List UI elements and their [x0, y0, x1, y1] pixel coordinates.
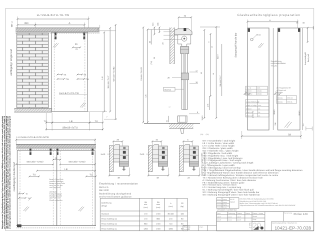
svg-text:flush pull: flush pull	[307, 54, 310, 62]
detail D2 wall fixing 2x10	[148, 146, 152, 172]
svg-text:(mm): (mm)	[156, 206, 161, 209]
svg-text:Standard: Standard	[101, 213, 109, 216]
view1 bottom sill band	[14, 108, 52, 112]
svg-text:17: 17	[196, 69, 198, 72]
svg-text:Ausführung: Ausführung	[101, 202, 111, 205]
view2 roller hangers	[30, 149, 32, 152]
svg-text:(34): (34)	[200, 133, 203, 136]
svg-text:SB=LB/2+TU-B/2: SB=LB/2+TU-B/2	[69, 160, 87, 163]
section side clamp	[181, 73, 188, 80]
view1 dim 7 bottom right	[88, 111, 107, 113]
handle chain top line	[200, 26, 220, 28]
svg-text:LB: LB	[65, 168, 68, 171]
svg-text:26: 26	[258, 111, 260, 114]
notice left mini table	[217, 197, 230, 199]
section dim 8 bottom	[189, 113, 200, 115]
view2 dim TU left	[30, 175, 40, 177]
svg-text:7: 7	[106, 115, 107, 118]
svg-text:80-160: 80-160	[168, 213, 174, 216]
section wall hatch strip	[170, 28, 174, 65]
svg-text:xx.xx: xx.xx	[217, 205, 221, 207]
svg-text:60: 60	[200, 72, 203, 74]
svg-text:30: 30	[153, 57, 156, 59]
glass prep dim 59 below panes	[241, 131, 243, 139]
title block middle fields	[251, 212, 253, 231]
svg-text:45: 45	[296, 22, 298, 25]
svg-text:Glasbearbeitung/glass prepara: Glasbearbeitung/glass preparation	[237, 13, 300, 17]
section floor hatch	[169, 123, 193, 128]
svg-text:min: min	[144, 203, 147, 206]
svg-text:TU: TU	[44, 120, 47, 123]
svg-text:Stangengriff/handle bar: Stangengriff/handle bar	[234, 32, 237, 57]
svg-text:LH: LH	[101, 76, 104, 79]
section floor guide	[178, 116, 187, 122]
glass prep right dim 904	[302, 28, 304, 130]
svg-text:1250: 1250	[144, 227, 148, 230]
title block logo	[253, 226, 258, 230]
svg-text:Perlan SoftStop 44: Perlan SoftStop 44	[101, 218, 117, 221]
view2 glass marks	[24, 207, 28, 212]
section door panel	[181, 54, 183, 110]
view2 right leaf	[57, 151, 95, 226]
svg-text:10421: 10421	[188, 225, 191, 230]
svg-text:TU: TU	[89, 174, 92, 177]
view2 dim LB	[37, 170, 95, 172]
section dim LH vertical	[147, 30, 149, 123]
svg-text:1700: 1700	[156, 227, 160, 230]
glass prep glass marks	[258, 43, 262, 48]
svg-text:26: 26	[258, 108, 260, 111]
view1 dimension 350	[18, 24, 36, 26]
svg-text:ESG 10: ESG 10	[246, 93, 252, 96]
view1 bottom dim SB	[46, 128, 103, 130]
svg-text:Perlan 140: Perlan 140	[294, 212, 308, 216]
section soffit line	[148, 29, 170, 31]
svg-text:(TU): (TU)	[150, 61, 153, 65]
svg-text:und ragt nach: und ragt nach	[49, 186, 61, 189]
svg-text:maße of edge: maße of edge	[246, 104, 256, 107]
view1 roller hangers	[55, 33, 57, 36]
handle chain fourth line	[221, 44, 223, 96]
glass prep hole d15	[251, 38, 254, 41]
svg-text:SB=LB+2xTU: SB=LB+2xTU	[62, 127, 77, 130]
view1 dims TK TW right pair	[78, 74, 83, 76]
svg-text:Ausschnittgriff: Ausschnittgriff	[304, 52, 307, 65]
svg-text:Grösse: Grösse	[277, 97, 283, 100]
svg-text:104.3: 104.3	[201, 116, 204, 121]
svg-text:(27): (27)	[207, 103, 210, 107]
svg-text:80: 80	[181, 223, 183, 226]
view1 dims TK TW left pair	[58, 74, 63, 76]
svg-text:SH=LH-TU-7: SH=LH-TU-7	[107, 75, 110, 88]
handle chain second line	[210, 34, 212, 96]
detail D1 wall fixing 5x10	[109, 146, 113, 172]
svg-text:SG = Bohrung Stangengriff unte: SG = Bohrung Stangengriff unten / bore h…	[203, 194, 261, 197]
svg-text:26: 26	[258, 115, 260, 118]
title block left cells	[183, 224, 217, 226]
handle chain third line	[215, 27, 217, 118]
svg-text:DIN 4L: DIN 4L	[287, 101, 292, 104]
title block revision rows	[217, 214, 265, 216]
section floor anchor	[181, 129, 185, 134]
title block benennung Perlan 140	[283, 212, 285, 222]
glass prep right bottom ticks	[305, 127, 307, 131]
svg-text:LL=2xLB+2xTU-B-2xTK-2xTW: LL=2xLB+2xTU-B-2xTK-2xTW	[16, 136, 49, 139]
svg-text:xx.xx: xx.xx	[228, 220, 232, 222]
view2 corner floor guide dark	[17, 224, 21, 227]
svg-text:10421-EP-70.028: 10421-EP-70.028	[275, 225, 312, 230]
svg-text:160: 160	[181, 213, 184, 216]
svg-text:SB=LB/2+TU-B/2: SB=LB/2+TU-B/2	[27, 160, 45, 163]
svg-text:Datum: Datum	[230, 200, 236, 203]
handle chain datum line	[203, 30, 205, 118]
svg-text:GH=LH-TU+82: GH=LH-TU+82	[140, 66, 143, 80]
svg-text:TU: TU	[95, 120, 98, 123]
svg-text:Gleich anliefern: Gleich anliefern	[49, 199, 62, 202]
glass prep table 1	[246, 85, 268, 87]
svg-text:520: 520	[249, 221, 262, 230]
svg-text:Anfrage: Anfrage	[277, 91, 283, 94]
svg-text:32: 32	[165, 120, 168, 122]
svg-text:xx.xx: xx.xx	[217, 202, 221, 204]
svg-text:DIN 44: DIN 44	[287, 97, 292, 100]
view1 door leaf	[52, 32, 88, 111]
svg-text:TS=25: TS=25	[271, 65, 278, 68]
glass prep table 2	[246, 99, 270, 101]
view2 top track band	[16, 144, 96, 148]
svg-text:(mm): (mm)	[169, 205, 174, 208]
view2 bottom sill	[16, 225, 96, 227]
svg-text:ESG 12: ESG 12	[246, 115, 252, 118]
svg-text:ESG 8: ESG 8	[246, 108, 251, 111]
view1 right vertical dim LH	[103, 32, 105, 111]
copyright note rotated left edge	[1, 115, 11, 229]
svg-text:1700: 1700	[156, 213, 160, 216]
svg-text:einflügelig / single leaf: einflügelig / single leaf	[10, 49, 13, 76]
svg-text:xx.xx: xx.xx	[228, 216, 232, 218]
glass prep right pane	[278, 28, 300, 130]
view1 right vertical dim GH	[115, 25, 117, 119]
section dim 18	[190, 83, 199, 85]
glass prep right pane glass marks	[285, 122, 290, 128]
svg-text:860: 860	[144, 223, 147, 226]
svg-text:vertraulich / confidential: vertraulich / confidential	[217, 209, 237, 212]
svg-text:28: 28	[168, 76, 170, 79]
svg-text:Perlan SoftStop 44: Perlan SoftStop 44	[101, 223, 117, 226]
view2 top dim line	[16, 139, 95, 141]
svg-text:zweiflügelig / double leaf: zweiflügelig / double leaf	[13, 162, 16, 192]
svg-text:1700: 1700	[156, 223, 160, 226]
svg-text:40: 40	[148, 41, 151, 43]
detail D3 wall fixing	[179, 146, 183, 172]
view1 bottom dim TU LB TU	[46, 122, 52, 124]
svg-text:904.3: 904.3	[298, 111, 301, 116]
svg-text:26/40: 26/40	[257, 93, 261, 96]
glass prep TK dim left	[245, 93, 250, 95]
view1 dimension A	[35, 24, 84, 26]
svg-text:26/40: 26/40	[257, 90, 261, 93]
svg-text:18: 18	[196, 81, 198, 84]
svg-text:(52): (52)	[152, 22, 155, 26]
view2 dim B	[53, 159, 60, 161]
svg-text:design: design	[101, 204, 107, 207]
view1 bottom extension lines	[45, 113, 47, 131]
svg-text:(34): (34)	[157, 22, 160, 26]
glass prep TK dim right	[275, 93, 280, 95]
svg-text:GH=LH-TU+82: GH=LH-TU+82	[113, 66, 116, 81]
view1 right vertical dim SH	[109, 28, 111, 112]
svg-text:Grösse: Grösse	[277, 101, 283, 104]
svg-text:740: 740	[169, 223, 172, 226]
svg-text:29: 29	[161, 43, 164, 45]
svg-text:170: 170	[144, 213, 147, 216]
glass prep centre dim 904	[272, 28, 274, 130]
view1 top track band	[16, 28, 100, 32]
svg-text:470: 470	[169, 218, 172, 221]
svg-text:TU: TU	[33, 174, 36, 177]
glass prep left pane	[248, 28, 270, 130]
table design SB A FG	[99, 198, 101, 231]
view2 TK TW dims	[19, 193, 24, 195]
svg-text:12: 12	[211, 46, 214, 48]
svg-text:80: 80	[181, 218, 183, 221]
svg-text:LL=2xLB-3xTU-TK-TW: LL=2xLB-3xTU-TK-TW	[37, 13, 70, 17]
svg-text:1090: 1090	[169, 227, 173, 230]
svg-text:350: 350	[24, 22, 29, 25]
view1 leaf glass marks top	[53, 43, 57, 47]
svg-text:Ausschnittsmass: Ausschnittsmass	[246, 101, 259, 104]
title block outer lines	[217, 211, 314, 213]
glass prep right pane corner clamp	[298, 28, 300, 32]
svg-text:d: d	[258, 101, 259, 104]
svg-text:(mm): (mm)	[144, 206, 149, 209]
svg-text:12: 12	[169, 105, 171, 108]
svg-text:ESG 8: ESG 8	[246, 90, 251, 93]
view2 left leaf	[17, 151, 57, 226]
svg-text:8: 8	[197, 111, 198, 114]
view1 extension lines top	[17, 17, 19, 30]
svg-text:170: 170	[144, 218, 147, 221]
svg-text:60: 60	[303, 22, 305, 25]
svg-text:8/10/12: 8/10/12	[164, 88, 172, 91]
section dim 17	[190, 71, 199, 73]
section label 8 10 12 boxed	[164, 87, 176, 91]
view1 brick wall	[17, 33, 49, 108]
section track assembly	[174, 29, 192, 35]
svg-text:(kg): (kg)	[181, 205, 184, 208]
section leader lines	[164, 31, 175, 33]
svg-text:6: 6	[207, 42, 210, 43]
section dim GH vertical	[142, 28, 144, 123]
svg-text:(20): (20)	[206, 133, 209, 136]
svg-text:max: max	[156, 203, 160, 206]
notice date cell	[238, 198, 240, 209]
svg-text:904.3: 904.3	[273, 110, 276, 115]
view2 dim TU right	[86, 175, 96, 177]
glass prep corner clamps	[248, 28, 250, 32]
svg-text:Nr. / d: Nr. / d	[246, 87, 251, 90]
view1 chains top extension line	[100, 30, 116, 32]
view1 leaf glass marks bottom	[80, 103, 84, 108]
glass prep right mini table	[277, 95, 297, 97]
svg-text:SH=LH-TU-7: SH=LH-TU-7	[219, 76, 222, 87]
svg-text:860: 860	[157, 218, 160, 221]
section top dim 34	[179, 16, 192, 18]
glass prep dim A	[248, 21, 298, 23]
svg-text:xx.xx: xx.xx	[217, 199, 221, 201]
svg-text:ESG 10: ESG 10	[246, 111, 252, 114]
svg-text:Perlan SoftStop 4L: Perlan SoftStop 4L	[101, 227, 117, 230]
svg-text:or design registration Schutzv: or design registration Schutzvermerk nac…	[8, 115, 11, 229]
svg-text:LB: LB	[70, 120, 73, 123]
